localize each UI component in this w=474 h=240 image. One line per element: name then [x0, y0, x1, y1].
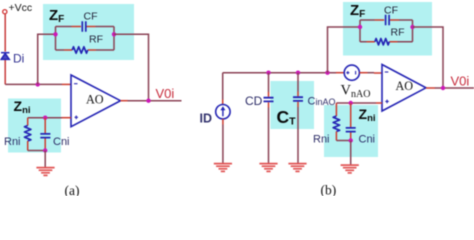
pin CF (a) — [72, 26, 96, 28]
pin CD bottom — [268, 102, 270, 107]
svg-text:CF: CF — [384, 4, 398, 16]
pin op-amp output (b) — [426, 87, 435, 89]
pin CD top — [268, 92, 270, 97]
pin plus-input (a) — [62, 117, 71, 119]
node ZF(a) left — [53, 32, 57, 36]
pin CF (b) — [375, 19, 400, 21]
wire CD riser — [268, 73, 270, 92]
pin ID top — [222, 100, 224, 105]
svg-text:Rni: Rni — [4, 136, 21, 148]
resistor RF (b) — [375, 39, 389, 45]
current source ID — [216, 105, 230, 119]
wire ground stem (a) — [44, 151, 46, 168]
resistor RF (a) — [72, 47, 87, 53]
pin RF (a) — [64, 49, 96, 51]
svg-text:V0i: V0i — [156, 86, 175, 101]
pin Rni(b) bottom — [335, 132, 337, 141]
ground CD — [259, 164, 277, 172]
wire Zni(b) top — [336, 102, 376, 104]
svg-text:Rni: Rni — [313, 134, 330, 146]
resistor Rni (a) — [25, 126, 31, 142]
pin Cni (a) bottom — [44, 139, 46, 151]
pin Cni(b) top — [350, 103, 352, 127]
pin VnAO right — [359, 72, 367, 74]
wire CinAO to ground — [297, 107, 299, 163]
pin VnAO left — [336, 72, 344, 74]
pin CinAO top — [297, 92, 299, 97]
op-amp AO (b) — [382, 65, 426, 112]
wire ZF(b) left drop — [328, 27, 361, 73]
capacitor Cni (a) — [40, 134, 50, 138]
wire Vcc rail — [4, 14, 6, 84]
node output junction (a) — [146, 99, 150, 103]
node output junction (b) — [441, 86, 445, 90]
svg-text:CD: CD — [245, 94, 263, 108]
svg-text:Cni: Cni — [359, 134, 376, 146]
node Zni(b) top junction — [349, 101, 353, 105]
wire ZF(a) left drop — [38, 34, 56, 84]
pin CinAO bottom — [297, 102, 299, 107]
pin Rni (a) top — [27, 118, 29, 126]
wire ZF(b) right to output — [413, 27, 444, 88]
capacitor CD — [264, 98, 274, 102]
wire Zni(b) bottom — [336, 140, 350, 142]
op-amp AO (a) — [71, 75, 121, 127]
wire output (b) — [435, 87, 474, 89]
svg-text:AO: AO — [86, 92, 104, 106]
resistor Rni (b) — [333, 116, 339, 132]
pin Cni (a) top — [44, 118, 46, 133]
svg-text:(a): (a) — [65, 183, 80, 196]
pin minus-input (a) — [62, 83, 71, 85]
svg-text:RF: RF — [391, 27, 405, 39]
wire ZF(b) frame — [360, 20, 413, 42]
svg-text:ID: ID — [200, 112, 213, 126]
capacitor CF (b) — [386, 15, 390, 25]
node Zni(b) bottom junction — [349, 138, 353, 142]
wire ground stem Zni(b) — [350, 141, 352, 165]
wire minus-input (a) — [5, 83, 62, 85]
svg-text:Di: Di — [13, 52, 24, 66]
capacitor Cni (b) — [346, 128, 356, 132]
svg-text:(b): (b) — [321, 183, 337, 197]
highlight box Zni (b) — [324, 105, 378, 157]
pin ID bottom — [222, 119, 224, 125]
wire top bus (b) — [223, 72, 336, 74]
svg-text:VnAO: VnAO — [341, 83, 371, 101]
highlight box Zni (a) — [8, 99, 61, 153]
ground CinAO — [288, 164, 306, 172]
highlight box CT (b) — [271, 81, 315, 129]
pin plus-input (b) — [376, 102, 382, 104]
terminal +Vcc — [3, 10, 7, 14]
capacitor CinAO — [293, 97, 303, 101]
svg-text:V0i: V0i — [451, 73, 470, 88]
highlight box ZF (a) — [43, 4, 134, 60]
wire ID riser — [222, 73, 224, 100]
wire Zni(a) bottom — [28, 150, 46, 152]
ground ID — [214, 164, 232, 172]
node Zni(a) top junction — [43, 116, 47, 120]
node ZF(b) left — [358, 25, 362, 29]
svg-text:CinAO: CinAO — [308, 96, 336, 108]
pin op-amp output (a) — [121, 100, 129, 102]
wire Zni(a) top — [28, 117, 62, 119]
capacitor CF (a) — [82, 21, 86, 31]
wire CD to ground — [268, 108, 270, 164]
wire CinAO riser — [297, 73, 299, 92]
ground Zni(b) — [341, 165, 359, 173]
svg-text:Cni: Cni — [53, 136, 70, 148]
highlight box ZF (b) — [343, 2, 432, 56]
pin RF (b) — [367, 41, 398, 43]
wire ID to ground — [222, 125, 224, 164]
ground (a) — [36, 168, 54, 176]
node ZF(b) right — [410, 25, 414, 29]
svg-text:AO: AO — [396, 79, 414, 93]
wire ZF(a) right to output — [114, 34, 149, 100]
pin Cni(b) bottom — [350, 133, 352, 141]
node junction (a) minus wire — [36, 82, 40, 86]
node CinAO junction — [296, 71, 300, 75]
wire VnAO to op-amp — [368, 72, 375, 74]
svg-text:CF: CF — [84, 11, 98, 23]
wire output (a) — [128, 100, 182, 102]
svg-text:RF: RF — [89, 34, 103, 46]
node CD junction — [266, 71, 270, 75]
svg-text:+Vcc: +Vcc — [9, 2, 33, 14]
node ZF(b) drop junction — [325, 71, 329, 75]
pin Rni(b) top — [335, 103, 337, 116]
node Zni(a) bottom junction — [43, 148, 47, 152]
diode Di — [1, 53, 9, 60]
pin Rni (a) bottom — [27, 141, 29, 151]
pin minus-input (b) — [374, 72, 382, 74]
wire ZF(a) frame — [56, 27, 115, 51]
voltage source VnAO — [344, 65, 359, 80]
node ZF(a) right — [112, 32, 116, 36]
